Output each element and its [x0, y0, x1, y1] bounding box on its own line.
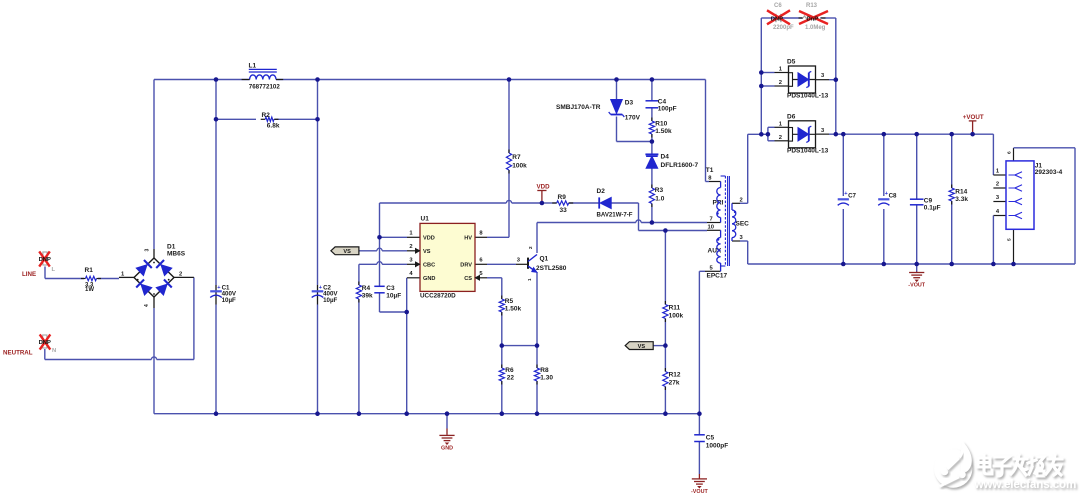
- svg-text:DNP: DNP: [39, 257, 51, 263]
- svg-text:10: 10: [708, 225, 714, 231]
- svg-text:T1: T1: [706, 167, 714, 174]
- svg-text:2: 2: [779, 80, 782, 86]
- svg-text:DNP: DNP: [39, 340, 51, 346]
- svg-text:1.50k: 1.50k: [655, 128, 672, 135]
- svg-text:27k: 27k: [669, 380, 680, 387]
- svg-text:39k: 39k: [362, 293, 373, 300]
- svg-text:DnP: DnP: [807, 16, 819, 22]
- svg-text:D4: D4: [661, 154, 670, 161]
- svg-text:R4: R4: [362, 285, 371, 292]
- svg-text:R6: R6: [505, 367, 514, 374]
- svg-text:292303-4: 292303-4: [1035, 169, 1063, 176]
- svg-text:2: 2: [409, 244, 412, 250]
- svg-text:CS: CS: [464, 276, 472, 282]
- svg-text:2: 2: [996, 182, 999, 188]
- svg-text:NEUTRAL: NEUTRAL: [3, 350, 33, 357]
- svg-text:4: 4: [144, 304, 150, 307]
- svg-text:R9: R9: [558, 194, 567, 201]
- svg-text:0.1µF: 0.1µF: [924, 205, 941, 212]
- svg-text:1.0Meg: 1.0Meg: [805, 25, 826, 31]
- svg-text:22: 22: [507, 375, 515, 382]
- svg-text:3: 3: [517, 258, 521, 264]
- svg-text:R1: R1: [85, 267, 94, 274]
- svg-text:R3: R3: [655, 187, 664, 194]
- svg-text:3: 3: [821, 73, 825, 79]
- svg-text:-VOUT: -VOUT: [908, 283, 925, 289]
- svg-text:8: 8: [708, 176, 712, 182]
- svg-text:D3: D3: [625, 100, 634, 107]
- svg-text:C9: C9: [924, 198, 933, 205]
- svg-text:170V: 170V: [625, 115, 641, 122]
- svg-text:R5: R5: [505, 298, 514, 305]
- svg-text:MB6S: MB6S: [167, 251, 186, 258]
- svg-text:L1: L1: [249, 62, 257, 69]
- svg-text:C4: C4: [658, 99, 667, 106]
- svg-text:10µF: 10µF: [222, 297, 236, 304]
- svg-text:C5: C5: [706, 435, 715, 442]
- svg-text:BAV21W-7-F: BAV21W-7-F: [597, 212, 633, 219]
- svg-text:3: 3: [740, 235, 744, 241]
- svg-text:1.30: 1.30: [540, 375, 553, 382]
- svg-text:VS: VS: [343, 249, 351, 255]
- svg-text:VS: VS: [423, 249, 431, 255]
- svg-text:CBC: CBC: [423, 263, 435, 269]
- svg-text:1: 1: [996, 169, 1000, 175]
- svg-text:10µF: 10µF: [323, 297, 337, 304]
- svg-text:3: 3: [409, 258, 413, 264]
- svg-text:www.elecfans.com: www.elecfans.com: [974, 478, 1077, 491]
- svg-text:D5: D5: [787, 59, 796, 66]
- svg-text:L: L: [52, 267, 56, 273]
- svg-text:100k: 100k: [512, 163, 527, 170]
- svg-text:SMBJ170A-TR: SMBJ170A-TR: [556, 104, 601, 111]
- svg-text:2: 2: [740, 197, 743, 203]
- svg-text:U1: U1: [421, 216, 430, 223]
- svg-text:1W: 1W: [85, 287, 94, 293]
- svg-text:2: 2: [179, 272, 182, 278]
- svg-text:PDS1040L-13: PDS1040L-13: [787, 93, 829, 100]
- svg-text:2STL2580: 2STL2580: [536, 265, 567, 272]
- svg-text:UCC28720D: UCC28720D: [420, 292, 456, 299]
- svg-text:+VOUT: +VOUT: [963, 114, 984, 121]
- svg-text:100k: 100k: [669, 313, 684, 320]
- svg-text:GND: GND: [441, 446, 453, 452]
- svg-text:4: 4: [996, 209, 1000, 215]
- svg-text:LINE: LINE: [22, 271, 36, 278]
- svg-text:C8: C8: [889, 192, 897, 199]
- svg-text:1.50k: 1.50k: [505, 306, 522, 313]
- svg-text:7: 7: [710, 217, 713, 223]
- svg-text:DFLR1600-7: DFLR1600-7: [661, 162, 699, 169]
- svg-text:3.3k: 3.3k: [955, 196, 968, 203]
- svg-text:R13: R13: [806, 3, 818, 9]
- svg-text:10µF: 10µF: [386, 293, 401, 300]
- svg-text:D6: D6: [787, 113, 796, 120]
- svg-text:R11: R11: [669, 305, 681, 312]
- svg-text:1: 1: [121, 272, 125, 278]
- svg-text:1: 1: [409, 231, 413, 237]
- svg-text:4: 4: [409, 271, 413, 277]
- svg-text:Q1: Q1: [540, 256, 549, 263]
- svg-text:100pF: 100pF: [658, 106, 677, 113]
- svg-text:R14: R14: [955, 189, 967, 196]
- svg-text:D1: D1: [167, 244, 176, 251]
- svg-text:N: N: [52, 348, 56, 354]
- svg-text:1.0: 1.0: [655, 196, 664, 203]
- svg-text:R8: R8: [540, 367, 549, 374]
- svg-text:DRV: DRV: [460, 263, 472, 269]
- svg-text:PDS1040L-13: PDS1040L-13: [787, 147, 829, 154]
- svg-text:1000pF: 1000pF: [706, 443, 728, 450]
- svg-text:DNP: DNP: [771, 16, 783, 22]
- svg-text:33: 33: [560, 207, 568, 214]
- svg-text:2: 2: [779, 135, 782, 141]
- svg-text:VS: VS: [638, 344, 646, 350]
- svg-text:GND: GND: [423, 276, 435, 282]
- svg-text:3: 3: [996, 195, 1000, 201]
- svg-text:VDD: VDD: [423, 236, 435, 242]
- svg-text:6.8k: 6.8k: [267, 122, 280, 129]
- svg-text:5: 5: [710, 265, 714, 271]
- svg-text:C6: C6: [774, 3, 782, 9]
- svg-text:2: 2: [528, 246, 533, 249]
- svg-text:1: 1: [527, 278, 532, 281]
- svg-text:HV: HV: [464, 236, 472, 242]
- svg-text:SEC: SEC: [736, 221, 750, 228]
- svg-text:-VOUT: -VOUT: [691, 489, 708, 495]
- svg-text:6: 6: [1007, 151, 1013, 154]
- svg-text:1: 1: [779, 67, 783, 73]
- svg-text:3: 3: [821, 128, 825, 134]
- svg-text:3: 3: [145, 249, 151, 252]
- svg-text:2200pF: 2200pF: [773, 25, 794, 31]
- svg-text:EPC17: EPC17: [707, 273, 728, 280]
- svg-text:R12: R12: [669, 372, 681, 379]
- svg-text:5: 5: [1007, 238, 1013, 241]
- svg-text:VDD: VDD: [537, 184, 551, 191]
- svg-text:C7: C7: [848, 192, 856, 199]
- svg-text:768772102: 768772102: [249, 83, 281, 90]
- svg-text:6: 6: [479, 258, 483, 264]
- svg-text:R10: R10: [655, 121, 667, 128]
- svg-text:8: 8: [479, 231, 483, 237]
- svg-text:1: 1: [779, 121, 783, 127]
- svg-text:C3: C3: [386, 285, 395, 292]
- svg-text:R7: R7: [512, 154, 521, 161]
- svg-text:R2: R2: [262, 112, 271, 119]
- svg-text:D2: D2: [597, 188, 606, 195]
